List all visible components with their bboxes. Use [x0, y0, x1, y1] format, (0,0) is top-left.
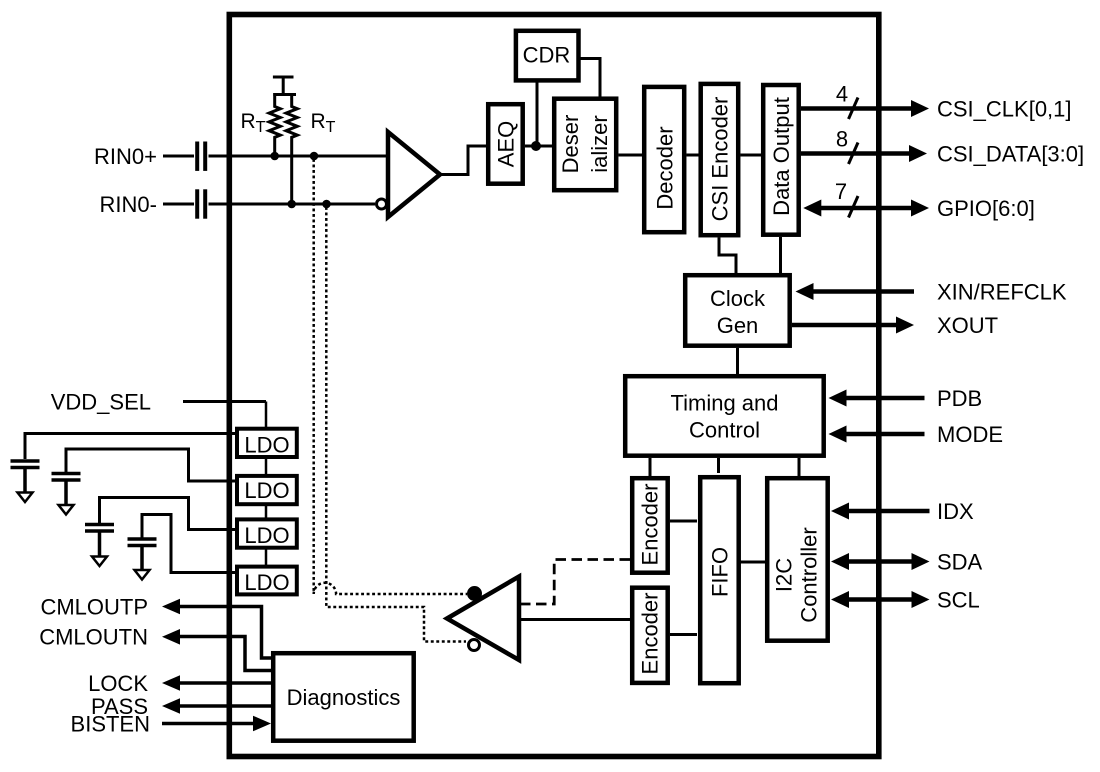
svg-text:XIN/REFCLK: XIN/REFCLK	[937, 280, 1067, 305]
svg-text:CMLOUTN: CMLOUTN	[39, 625, 148, 650]
svg-text:Timing and: Timing and	[670, 391, 778, 416]
svg-text:7: 7	[835, 179, 847, 204]
svg-text:FIFO: FIFO	[708, 547, 733, 597]
svg-text:RIN0+: RIN0+	[94, 144, 157, 169]
svg-text:LDO: LDO	[244, 478, 289, 503]
svg-text:CSI_CLK[0,1]: CSI_CLK[0,1]	[937, 97, 1072, 122]
svg-text:LOCK: LOCK	[88, 671, 148, 696]
svg-text:GPIO[6:0]: GPIO[6:0]	[937, 196, 1035, 221]
svg-text:Decoder: Decoder	[652, 126, 677, 209]
svg-text:PDB: PDB	[937, 386, 982, 411]
svg-text:RT: RT	[311, 110, 336, 136]
svg-text:CSI Encoder: CSI Encoder	[708, 97, 733, 222]
svg-text:SDA: SDA	[937, 550, 983, 575]
svg-text:LDO: LDO	[244, 570, 289, 595]
svg-text:Encoder: Encoder	[638, 484, 663, 566]
svg-text:CMLOUTP: CMLOUTP	[40, 595, 148, 620]
svg-text:CDR: CDR	[523, 43, 571, 68]
svg-text:XOUT: XOUT	[937, 313, 998, 338]
svg-text:Control: Control	[689, 418, 760, 443]
svg-text:IDX: IDX	[937, 499, 974, 524]
svg-text:CSI_DATA[3:0]: CSI_DATA[3:0]	[937, 142, 1084, 167]
svg-text:Diagnostics: Diagnostics	[287, 685, 401, 710]
svg-text:RT: RT	[241, 110, 266, 136]
svg-text:Gen: Gen	[717, 313, 759, 338]
svg-text:VDD_SEL: VDD_SEL	[51, 390, 151, 415]
svg-text:MODE: MODE	[937, 422, 1003, 447]
svg-text:Data Output: Data Output	[769, 97, 794, 216]
svg-text:AEQ: AEQ	[494, 121, 519, 167]
svg-text:LDO: LDO	[244, 433, 289, 458]
svg-text:BISTEN: BISTEN	[71, 712, 150, 737]
svg-text:LDO: LDO	[244, 523, 289, 548]
svg-text:8: 8	[836, 127, 848, 152]
svg-text:4: 4	[836, 82, 848, 107]
svg-text:SCL: SCL	[937, 588, 980, 613]
svg-text:Clock: Clock	[710, 286, 766, 311]
svg-text:Encoder: Encoder	[638, 593, 663, 675]
svg-text:RIN0-: RIN0-	[100, 192, 157, 217]
